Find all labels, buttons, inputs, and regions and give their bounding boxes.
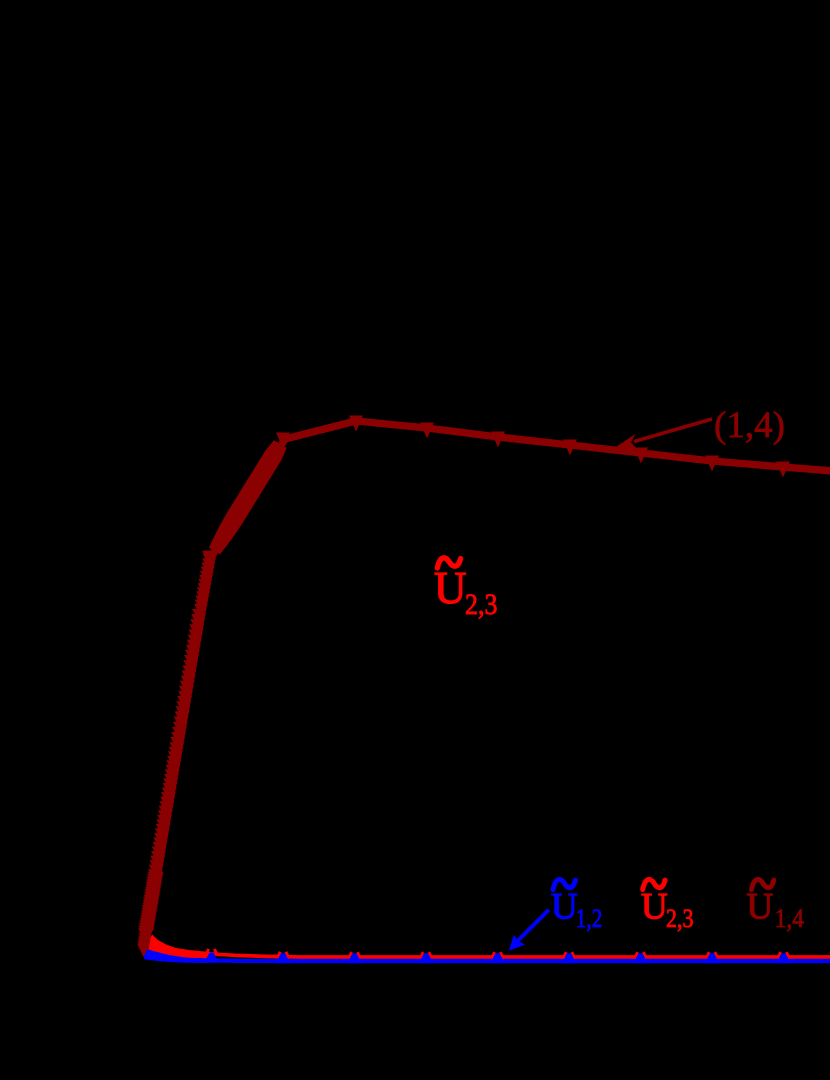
svg-text:1,4: 1,4 — [775, 904, 804, 933]
big red label U_2,3 mid plot — [437, 558, 460, 568]
svg-text:(1,4): (1,4) — [714, 405, 785, 446]
svg-text:U: U — [747, 887, 774, 928]
blue arrow to U_1,2 — [518, 910, 549, 941]
red open-triangle marker ears on bottom red curve — [206, 949, 790, 959]
svg-text:U: U — [551, 887, 578, 928]
blue curve U_1,2 bottom line — [144, 954, 830, 961]
svg-text:U: U — [641, 887, 668, 928]
knee marker — [202, 551, 217, 566]
svg-text:U: U — [434, 563, 467, 613]
curve (1,4) dark red line — [145, 421, 830, 949]
svg-text:2,3: 2,3 — [465, 588, 497, 621]
dark red label U_1,4 bottom — [752, 879, 774, 889]
red curve U_2,3 bottom line — [146, 938, 830, 957]
arrow to (1,4) curve — [634, 419, 712, 442]
dense down-triangle markers on steep rise — [137, 554, 217, 957]
svg-text:2,3: 2,3 — [666, 904, 694, 933]
blue up-triangle markers — [204, 953, 791, 964]
svg-text:1,2: 1,2 — [576, 904, 603, 933]
blue label U_1,2 — [553, 879, 575, 889]
blue curve left wedge — [144, 948, 211, 963]
fat marker band on upper steep segment — [209, 440, 287, 554]
sparse down-triangle markers on top curve — [276, 416, 790, 478]
red curve left wedge — [146, 935, 215, 961]
red label U_2,3 bottom — [643, 879, 665, 889]
